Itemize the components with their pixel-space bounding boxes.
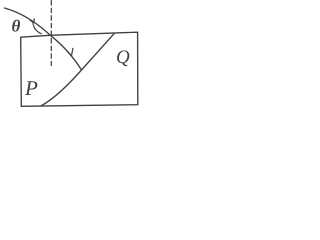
normal line (dashed) (50, 1, 52, 66)
incident ray arrowhead (30, 19, 34, 23)
incident ray (5, 8, 51, 35)
refracted ray (50, 35, 81, 70)
refracted ray arrowhead (68, 48, 73, 56)
svg-text:θ: θ (12, 17, 21, 36)
diagonal interface between P and Q (42, 33, 115, 105)
angle theta arc (33, 23, 42, 34)
svg-text:P: P (24, 76, 38, 100)
svg-text:Q: Q (116, 47, 130, 68)
rectangle slab P (medium boundary) (21, 32, 138, 106)
